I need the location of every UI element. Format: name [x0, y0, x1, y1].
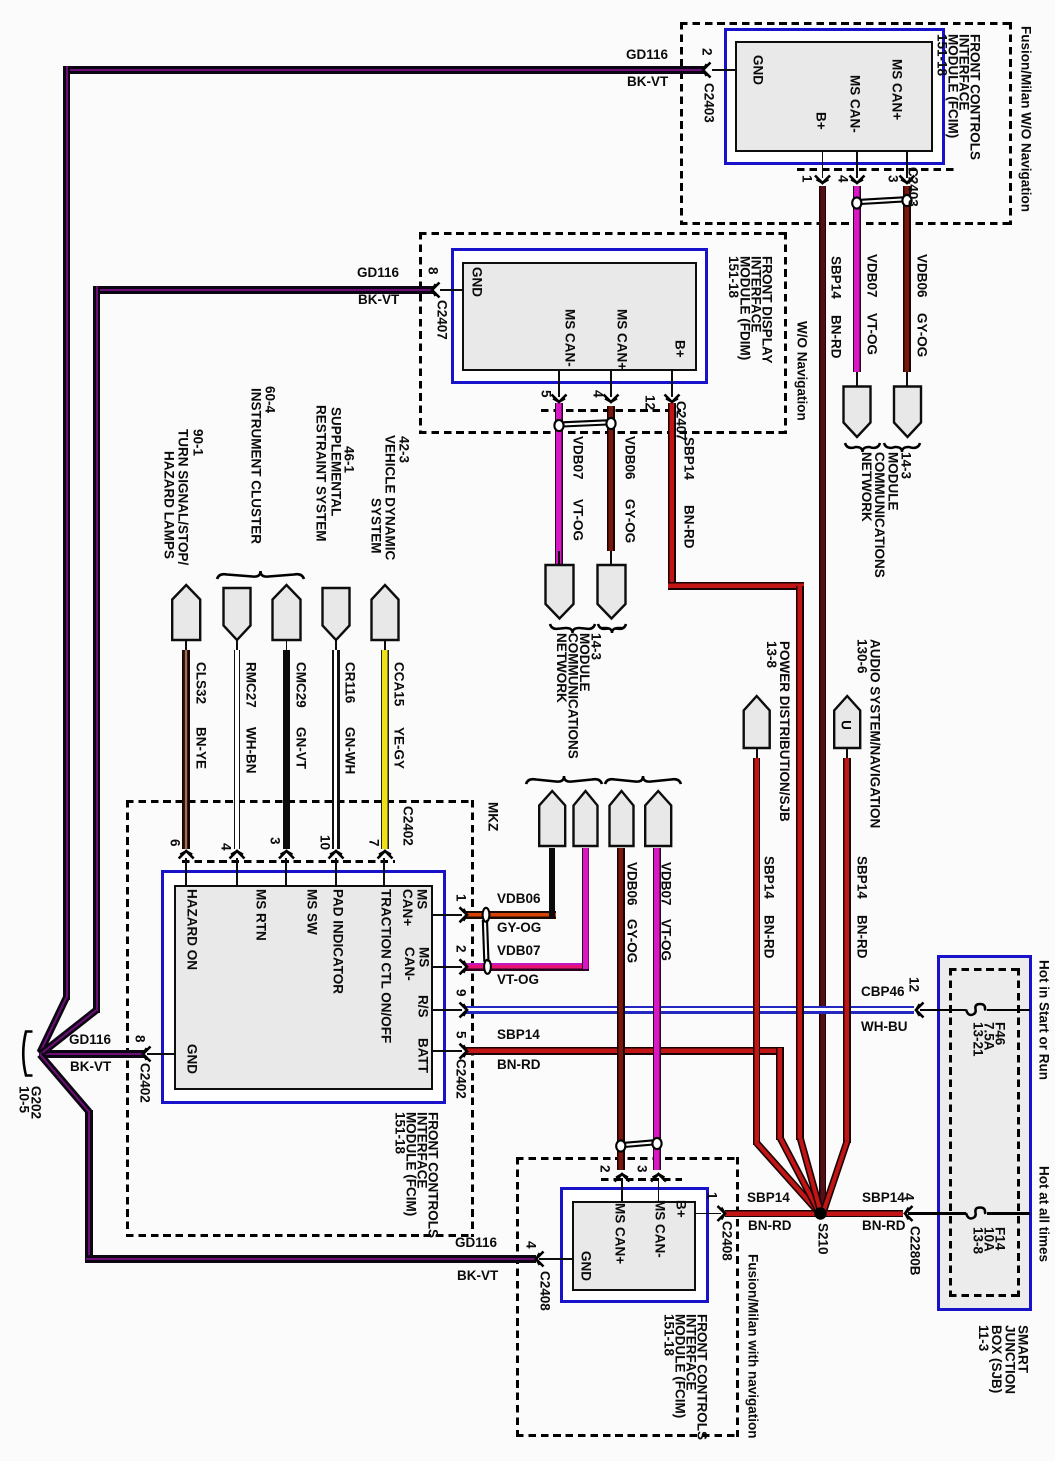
pin 3 (U4 MS CAN-) [636, 1165, 649, 1173]
label: Fusion/Milan with navigation [747, 1254, 760, 1439]
pin line U3 BATT pin 5 [431, 1050, 462, 1052]
pin line U3 GND pin 8 [147, 1053, 176, 1055]
wire segment: POWER DIST SBP14 into S210 [757, 1143, 817, 1211]
label: U1 GND [752, 55, 765, 85]
label: U4 GND [580, 1251, 593, 1281]
pin 3 (U1 MS CAN+) [887, 175, 900, 183]
brace: U2 network pair right [598, 624, 626, 633]
label: WH-BN [245, 727, 258, 774]
splice S210 [814, 1207, 826, 1219]
label: U3 HAZARD ON [186, 889, 199, 970]
pin 10 (U3 PAD INDICATOR) [319, 835, 332, 850]
label: BK-VT (top) [627, 75, 668, 89]
pin 1 (U3 MS CAN+) [455, 894, 468, 902]
label: U3 title [395, 1112, 439, 1238]
label: U3 MS CAN- [402, 947, 431, 981]
pin 5 (U3 BATT) [455, 1031, 468, 1039]
pin line U4 GND pin 4 [539, 1258, 574, 1260]
connector C2402 (U3 top) [402, 806, 415, 846]
label: HAZARD LAMPS [163, 451, 176, 559]
label: SBP14 (S210 left) [747, 1191, 790, 1205]
wire VDB06 GY-OG from U2 MS CAN+ pin 4 [607, 406, 615, 551]
label: U3 MS RTN [255, 889, 268, 941]
pin 2 (U4 MS CAN+) [599, 1165, 612, 1173]
connector symbol: network feed 2 [574, 791, 598, 846]
label: Fusion/Milan W/O Navigation [1020, 26, 1033, 212]
label: splice S210 [817, 1223, 830, 1255]
wire VDB07 VT-OG from U1 MS CAN- pin 4 [853, 186, 861, 372]
pin line U2 MS CAN- pin 5 [558, 371, 560, 397]
label: U3 PAD INDICATOR [332, 889, 345, 994]
label: VT-OG (U3 pin2) [497, 973, 539, 987]
connector symbol: CLS32 to TURN SIGNAL/STOP/HAZARD LAMPS [172, 585, 200, 640]
label: U2 B+ [674, 340, 687, 358]
connector C2402 (U3 GND) [139, 1063, 152, 1103]
label: CR116 [344, 662, 357, 703]
label: 13-8 [765, 641, 778, 668]
wire VDB06 GY-OG vertical feed to pentagon connector [549, 848, 555, 918]
connector symbol: network feed 3 [610, 791, 634, 846]
arrow: C2403 pin 1 (U1 B+) [815, 176, 830, 184]
module box U3: FRONT CONTROLS INTERFACE MODULE (FCIM) MKZ [0, 0, 1, 1]
dashed box: Fusion/Milan with navigation FCIM group [0, 0, 1, 1]
pin 12 (U2 B+) [644, 395, 657, 410]
label: RESTRAINT SYSTEM [315, 405, 328, 542]
label: BN-RD (U2) [683, 505, 696, 549]
module box U4: FRONT CONTROLS INTERFACE MODULE (FCIM) with navigation [0, 0, 1, 1]
label: GY-OG (U2) [624, 499, 637, 543]
connector symbol: network feed 1 [539, 791, 565, 846]
dashed box: Fusion/Milan W/O Navigation FCIM group [0, 0, 1, 1]
brace: network connectors right pair [605, 776, 681, 784]
pin 4 (U2 MS CAN+) [592, 390, 605, 398]
wire VDB06 GY-OG from network connector down to U4 pin 2 [617, 848, 625, 1170]
label: VT-OG (mid) [660, 919, 673, 961]
wire GD116 BK-VT from U1 GND to ground (horizontal) [63, 66, 705, 74]
label: CCA15 [393, 662, 406, 706]
wire SBP14 BN-RD splice S210 horizontal run [725, 1210, 903, 1218]
wire SBP14 BN-RD from U1 B+ down to splice S210 [819, 186, 827, 1207]
wire SBP14 BN-RD from U3 BATT pin 5 to splice S210 [466, 1047, 784, 1055]
label: CBP46 [861, 985, 905, 999]
fuse F14 10A symbol [966, 1212, 987, 1215]
connector C2407 (U2 bottom) [675, 401, 688, 441]
pin line U2 B+ pin 12 [671, 371, 673, 397]
label: CMC29 [295, 662, 308, 708]
label: U1 MS CAN+ [891, 59, 904, 120]
label: VDB07 (U2) [572, 436, 585, 480]
pin line U1 MS CAN+ pin 3 [906, 152, 908, 178]
arrow: C2408 pin 2 (U4 MS CAN+) [615, 1174, 630, 1182]
label: 60-4 [264, 386, 277, 413]
connector symbol: RMC27 to INSTRUMENT CLUSTER [224, 588, 251, 640]
label: BN-RD (power) [763, 915, 776, 959]
label: BK-VT (ground) [70, 1060, 111, 1074]
label: Hot in Start or Run [1038, 960, 1051, 1080]
wire segment: ground point to bottom BK-VT [40, 1055, 89, 1113]
pin 2 (U3 MS CAN-) [455, 945, 468, 953]
connector C2280B [909, 1226, 922, 1276]
arrow: C2402 pin 2 (U3 MS CAN-) [460, 959, 468, 974]
label: U2 MS CAN+ [616, 309, 629, 370]
wire VDB07 VT-OG from network connector down to U4 pin 3 [653, 848, 661, 1170]
connector symbol: CMC29 to INSTRUMENT CLUSTER [273, 585, 301, 640]
label: SBP14 (U3 pin5) [497, 1028, 540, 1042]
arrow: C2402 pin 10 (PAD INDICATOR) [329, 851, 344, 859]
arrow: pin 12 (SJB F46) [916, 1003, 924, 1018]
ground G202 symbol [23, 1032, 32, 1076]
label: U4 MS CAN- [654, 1200, 667, 1258]
connector C2408 (U4 B+) [721, 1221, 734, 1261]
wire SBP14 BN-RD from AUDIO SYSTEM/NAVIGATION [846, 748, 848, 760]
module box U2: FRONT DISPLAY INTERFACE MODULE (FDIM) [0, 0, 1, 1]
label: U3 BATT [417, 1038, 430, 1073]
label: U4 MS CAN+ [614, 1203, 627, 1264]
wire segment: U2 SBP14 into S210 [800, 1138, 820, 1210]
label: SBP14 (audio) [856, 856, 869, 899]
label: U2 GND [471, 267, 484, 297]
label: SMART JUNCTION BOX (SJB) 11-3 [977, 1325, 1030, 1394]
label: TURN SIGNAL/STOP/ [177, 429, 190, 565]
dashed box: FDIM W/O Navigation group [0, 0, 1, 1]
label: CLS32 [195, 662, 208, 704]
pin line U3 TRACTION CTL ON/OFF pin 7 [383, 858, 385, 887]
wire GD116 BK-VT left inner (vertical) [93, 286, 101, 1013]
wire GD116 BK-VT from U2 GND to ground (horizontal) [96, 286, 434, 294]
twisted pair symbol: U4 VDB06/VDB07 [616, 1140, 625, 1151]
fuse feed line F14 to C2280B pin 4 [908, 1212, 1030, 1215]
pin line U1 B+ pin 1 [822, 152, 824, 178]
connector symbol: CR116 to SUPPLEMENTAL RESTRAINT SYSTEM [323, 588, 350, 640]
wire VDB06 GY-OG stub at U3 MS CAN+ pin 1 [466, 911, 556, 919]
label: GY-OG (mid) [626, 919, 639, 963]
pin 4 (U1 MS CAN-) [837, 175, 850, 183]
pin line U3 R/S pin 9 [431, 1009, 462, 1011]
label: SBP14 (U2) [683, 437, 696, 480]
pin 6 (U3 HAZARD ON) [169, 839, 182, 847]
pin 2 (U1 GND) [701, 48, 714, 56]
label: U3 GND [186, 1044, 199, 1074]
arrow: C2407 pin 5 (U2 MS CAN-) [552, 395, 567, 403]
label: VDB06 (mid) [626, 862, 639, 906]
arrow: C2402 pin 8 (U3 GND) [143, 1047, 151, 1062]
label: Hot at all times [1038, 1166, 1051, 1262]
label: U2 title [728, 256, 772, 364]
label: VDB06 (U1) [916, 254, 929, 298]
brace: U1 network pair left [845, 443, 880, 452]
wires CLS32 BN-YE / RMC27 WH-BN / CMC29 GN-VT / CR116 GN-WH / CCA15 YE-GY to U3 [185, 640, 187, 652]
label: BN-RD (U1) [830, 315, 843, 359]
label: U1 title [937, 34, 981, 160]
label: VT-OG (U1) [866, 313, 879, 355]
twisted pair symbol: U2 VDB07/VDB06 [554, 420, 563, 431]
arrow: C2402 pin 1 (U3 MS CAN+) [460, 907, 468, 922]
wire VDB07 VT-OG vertical feed to pentagon connector [582, 848, 590, 969]
arrow: C2407 pin 4 (U2 MS CAN+) [604, 395, 619, 403]
label: RMC27 [245, 662, 258, 708]
twisted pair symbol: U3 VDB06/VDB07 [483, 908, 490, 922]
connector symbol: U1 VDB07 to module communications network [844, 387, 871, 438]
label: fuse F46 7.5A 13-21 [973, 1022, 1006, 1057]
arrow: C2402 pin 5 (U3 BATT) [460, 1044, 468, 1059]
pin 7 (U3 TRACTION) [368, 839, 381, 847]
connector symbol: CCA15 to VEHICLE DYNAMIC SYSTEM [372, 585, 399, 640]
label: BN-RD (U3 pin5) [497, 1058, 541, 1072]
label: GY-OG (U3 pin1) [497, 921, 541, 935]
pin 1 (U4 B+) [706, 1192, 719, 1200]
arrow: C2403 pin 2 (U1 GND) [703, 63, 711, 78]
pin line U4 B+ pin 1 [694, 1213, 721, 1215]
dashed box: MKZ FCIM group [0, 0, 1, 1]
pin 12 (SJB F46) [908, 977, 921, 992]
arrow: C2403 pin 4 (U1 MS CAN-) [850, 176, 865, 184]
label: BK-VT (U2) [358, 293, 399, 307]
label: INSTRUMENT CLUSTER [250, 388, 263, 544]
label: W/O Navigation (FDIM group) [796, 321, 809, 421]
arrow: C2408 pin 1 (U4 B+) [718, 1206, 726, 1221]
label: VDB07 (U1) [866, 254, 879, 298]
label: VDB07 (U3 pin2) [497, 944, 541, 958]
label: U4 B+ [675, 1200, 688, 1218]
wire SBP14 BN-RD from U2 B+ pin 12 to splice S210 [668, 403, 676, 590]
label: VDB07 (mid) [660, 862, 673, 906]
wire segment: outer BK-VT into ground point [40, 997, 67, 1053]
connector dashed line C2402 (MKZ top) [182, 860, 395, 863]
label: BN-RD (audio) [856, 915, 869, 959]
connector C2408 (U4 GND) [539, 1271, 552, 1311]
label: SBP14 (power) [763, 856, 776, 899]
brace: U1 network pair right [884, 443, 920, 452]
brace: network connectors left pair [526, 776, 602, 784]
pin line U3 MS CAN- pin 2 [431, 966, 462, 968]
connector symbol: U2 VDB06 to module communications network [598, 565, 626, 619]
label: 14-3 MODULE COMMUNICATIONS NETWORK (top) [860, 452, 913, 578]
arrow: C2402 pin 3 (MS SW) [279, 851, 294, 859]
brace: U2 network pair left [550, 624, 595, 633]
label: VDB06 (U3 pin1) [497, 892, 541, 906]
label: U3 TRACTION CTL ON/OFF [380, 889, 393, 1043]
label: SBP14 (U1) [830, 256, 843, 299]
pin 4 (U3 MS RTN) [220, 843, 233, 851]
wire segment: AUDIO SBP14 into S210 [824, 1141, 847, 1210]
label: GN-VT [295, 727, 308, 769]
pin line U3 PAD INDICATOR pin 10 [335, 858, 337, 887]
pin line U4 MS CAN- pin 3 [658, 1178, 660, 1203]
wire segment: U3 BATT SBP14 into S210 [780, 1138, 818, 1211]
label: U3 MS SW [306, 889, 319, 935]
label: SBP14 (S210 right) [862, 1191, 905, 1205]
label: 42-3 [398, 436, 411, 463]
wire VDB07 VT-OG from U2 MS CAN- pin 5 [555, 403, 563, 565]
dashed box inside SJB [0, 0, 1, 1]
wire GD116 BK-VT to bottom FCIM (vertical) [85, 1110, 93, 1263]
svg-text:U: U [839, 720, 854, 730]
label: GD116 (U2) [357, 266, 399, 280]
label: WH-BU [861, 1020, 908, 1034]
label: POWER DISTRIBUTION/SJB [778, 641, 791, 822]
pin line U3 MS CAN+ pin 1 [431, 914, 462, 916]
label: fuse F14 10A 13-8 [973, 1227, 1006, 1254]
pin line U1 GND pin 2 [712, 69, 737, 71]
pin line U2 GND pin 8 [440, 289, 464, 291]
label: U3 MS CAN+ [400, 889, 429, 926]
label: GD116 (ground) [69, 1033, 111, 1047]
label: U2 MS CAN- [564, 309, 577, 367]
label: MKZ group [487, 802, 500, 831]
fuse feed line F46 to pin 12 [920, 1009, 1030, 1012]
connector dashed line C2407 [541, 409, 681, 412]
pin line U3 HAZARD ON pin 6 [185, 858, 187, 887]
pin line U3 MS SW pin 3 [285, 858, 287, 887]
label: 46-1 [343, 446, 356, 473]
wire CBP46 WH-BU from U3 R/S pin 9 to SJB fuse F46 [466, 1006, 914, 1013]
label: 14-3 MODULE COMMUNICATIONS NETWORK (mid) [556, 633, 602, 759]
label: VT-OG (U2) [572, 499, 585, 541]
connector symbol: U2 VDB07 to module communications network [546, 565, 574, 619]
wire VDB07 VT-OG stub at U3 MS CAN- pin 2 [466, 963, 589, 971]
label: 130-6 [856, 639, 869, 674]
label: GN-WH [344, 727, 357, 774]
connector symbol: U1 VDB06 to module communications network [894, 387, 921, 438]
pin 5 (U2 MS CAN-) [540, 390, 553, 398]
wire GD116 BK-VT from U3 GND to ground point [39, 1050, 144, 1058]
arrow: C2280B pin 4 (SJB F14) [905, 1206, 913, 1221]
pin 9 (U3 R/S) [455, 989, 468, 997]
label: AUDIO SYSTEM/NAVIGATION [869, 639, 882, 828]
wire GD116 BK-VT to bottom FCIM GND (horizontal) [86, 1255, 537, 1263]
label: SYSTEM [370, 498, 383, 554]
label: BN-RD (S210 right) [862, 1219, 906, 1233]
wire SBP14 BN-RD from POWER DISTRIBUTION/SJB [756, 748, 758, 760]
label: SUPPLEMENTAL [330, 407, 343, 516]
wire GD116 BK-VT left outer (vertical) [63, 66, 71, 1000]
arrow: C2402 pin 9 (U3 R/S) [460, 1003, 468, 1018]
connector C2407 (U2 GND) [436, 300, 449, 340]
label: 90-1 [192, 429, 205, 456]
connector dashed line C2403 [797, 168, 955, 171]
label: GY-OG (U1) [916, 313, 929, 357]
pin 1 (U1 B+) [801, 175, 814, 183]
label: BN-YE [195, 727, 208, 769]
pin 8 (U3 GND) [134, 1035, 147, 1043]
pin 8 (U2 GND) [427, 267, 440, 275]
label: BN-RD (S210 left) [748, 1219, 792, 1233]
pin 4 (C2280B) [903, 1193, 916, 1201]
label: VEHICLE DYNAMIC [384, 435, 397, 560]
module box U1: FRONT CONTROLS INTERFACE MODULE (FCIM) W/O Navigation [0, 0, 1, 1]
connector C2403 (U1 bottom) [907, 167, 920, 207]
pin line U2 MS CAN+ pin 4 [610, 371, 612, 397]
pin 4 (U4 GND) [525, 1241, 538, 1249]
arrow: C2402 pin 7 (TRACTION CTL ON/OFF) [378, 851, 393, 859]
connector symbol: POWER DISTRIBUTION/SJB [744, 696, 770, 748]
pin line U4 MS CAN+ pin 2 [621, 1178, 623, 1203]
wire VDB06 GY-OG from U1 MS CAN+ pin 3 [903, 186, 911, 372]
pin 3 (U3 MS SW) [269, 837, 282, 845]
label: VDB06 (U2) [624, 436, 637, 480]
connector symbol U: AUDIO SYSTEM/NAVIGATION [834, 696, 860, 748]
label: ground G202 10-5 [18, 1086, 42, 1119]
arrow: C2408 pin 4 (U4 GND) [536, 1252, 544, 1267]
label: GD116 (bottom) [455, 1236, 497, 1250]
label: U1 B+ [815, 112, 828, 130]
arrow: C2402 pin 6 (HAZARD ON) [179, 851, 194, 859]
arrow: C2403 pin 3 (U1 MS CAN+) [900, 176, 915, 184]
fuse F46 7.5A symbol [966, 1008, 987, 1011]
label: U1 MS CAN- [849, 75, 862, 133]
arrow: C2408 pin 3 (U4 MS CAN-) [651, 1174, 666, 1182]
label: U4 title [664, 1314, 708, 1440]
label: YE-GY [393, 727, 406, 769]
connector C2402 (U3 right) [455, 1059, 468, 1099]
label: U3 R/S [417, 995, 430, 1018]
arrow: C2407 pin 12 (U2 B+) [665, 395, 680, 403]
connector dashed line C2408 (bottom FCIM top) [601, 1178, 682, 1181]
arrow: C2402 pin 4 (MS RTN) [230, 851, 245, 859]
connector C2403 (U1 GND) [703, 83, 716, 123]
twisted pair symbol: U1 VDB07/VDB06 [852, 197, 861, 208]
wire segment: inner BK-VT into ground point [40, 1010, 97, 1055]
connector symbol: network feed 4 [645, 791, 671, 846]
pin line U1 MS CAN- pin 4 [856, 152, 858, 178]
arrow: C2407 pin 8 (U2 GND) [432, 283, 440, 298]
label: BK-VT (bottom) [457, 1269, 498, 1283]
brace: INSTRUMENT CLUSTER group [217, 571, 304, 579]
label: GD116 (top) [626, 48, 668, 62]
module box SJB: SMART JUNCTION BOX [0, 0, 1, 1]
pin line U3 MS RTN pin 4 [236, 858, 238, 887]
